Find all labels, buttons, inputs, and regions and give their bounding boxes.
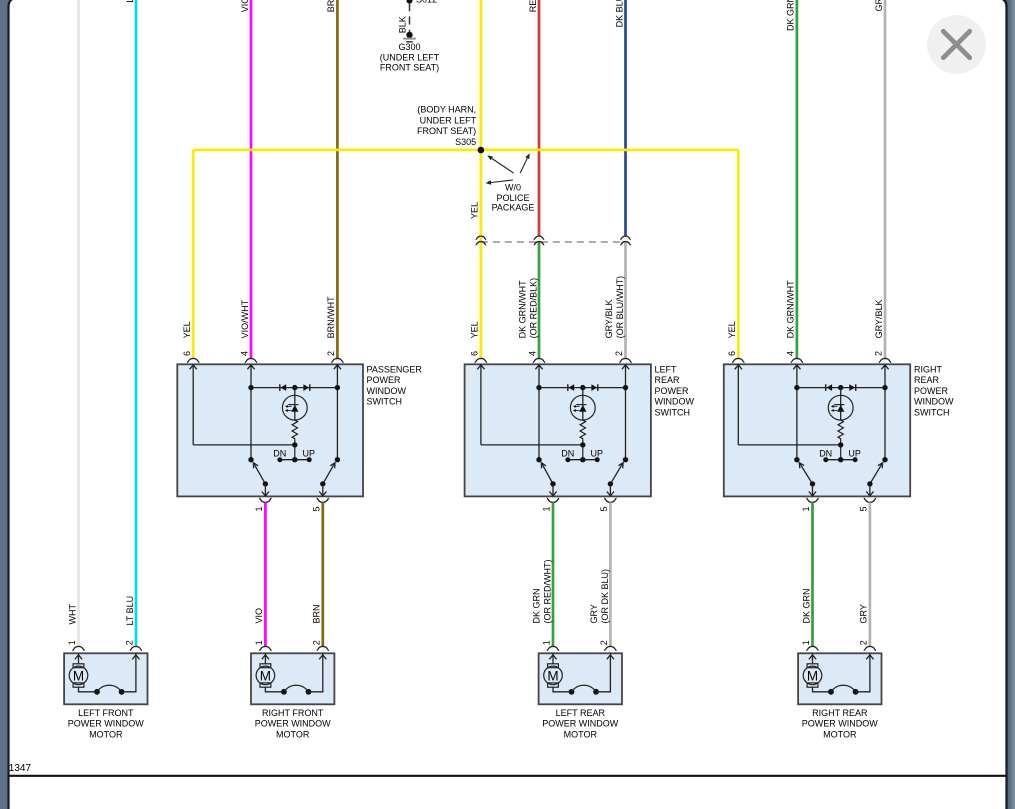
right rear power window switch: pin 4 internal lead bbox=[796, 364, 798, 459]
passenger power window switch: pin 5 internal lead bbox=[322, 484, 324, 497]
viewer close button bbox=[927, 15, 986, 74]
svg-text:VIO: VIO bbox=[254, 608, 264, 624]
right rear power window switch: pin 1 connector arc bbox=[806, 498, 818, 502]
passenger power window switch: pin 2 connector arc bbox=[331, 358, 343, 362]
viewer dark left margin bbox=[0, 0, 9, 809]
svg-text:YEL: YEL bbox=[182, 321, 192, 338]
svg-text:2: 2 bbox=[874, 351, 884, 356]
wire DK GRN (right rear switch 1 to right rear motor) bbox=[811, 502, 814, 647]
left front power window motor: block body bbox=[64, 653, 147, 704]
right rear power window motor: pin 2 connector arc bbox=[864, 646, 876, 650]
right front power window motor: jumper arc bbox=[281, 689, 287, 695]
ground G300 node bbox=[406, 32, 412, 38]
svg-text:6: 6 bbox=[470, 351, 480, 356]
left rear power window switch: DN/UP contact bar bbox=[568, 459, 597, 461]
left rear power window switch: circuit breaker circle bbox=[570, 395, 595, 420]
left front power window motor: pin 1 connector arc bbox=[72, 646, 84, 650]
wire WHT (left front motor pin 1 feed) bbox=[77, 0, 80, 647]
svg-text:5: 5 bbox=[859, 506, 869, 511]
passenger power window switch: pin 2 internal lead bbox=[336, 364, 338, 459]
passenger power window switch: diode D2 (up direction) bbox=[309, 384, 311, 391]
svg-text:6: 6 bbox=[182, 351, 192, 356]
right rear power window switch: pin 5 connector arc bbox=[864, 498, 876, 502]
left front power window motor: motor M brushes bbox=[73, 664, 84, 668]
left rear power window switch: pin 6 internal lead bbox=[480, 364, 482, 445]
svg-text:1: 1 bbox=[801, 506, 811, 511]
passenger power window switch: pin 6 internal lead bbox=[192, 364, 194, 445]
wire DK GRN/WHT (to right rear switch pin 4) bbox=[796, 0, 799, 359]
left rear power window switch: pin 1 connector arc bbox=[547, 498, 559, 502]
svg-text:2: 2 bbox=[599, 640, 609, 645]
left rear power window switch: circuit breaker arrows bbox=[576, 405, 580, 407]
wire DK GRN (left rear switch 1 to left rear motor) bbox=[552, 502, 555, 647]
svg-text:GRY/BLK: GRY/BLK bbox=[874, 300, 884, 339]
passenger power window switch: DN wiper blade bbox=[253, 463, 265, 484]
svg-text:UP: UP bbox=[303, 448, 316, 458]
right rear power window switch: circuit breaker circle bbox=[828, 395, 853, 420]
right rear power window switch: pole node pin4 side bbox=[794, 457, 799, 462]
splice S305 bbox=[478, 147, 485, 154]
svg-text:4: 4 bbox=[786, 351, 796, 356]
svg-text:(OR BLU/WHT): (OR BLU/WHT) bbox=[615, 276, 625, 339]
left front power window motor: motor M circle bbox=[69, 666, 88, 685]
svg-text:(OR DK BLU): (OR DK BLU) bbox=[600, 569, 610, 624]
svg-text:1: 1 bbox=[801, 640, 811, 645]
svg-text:1: 1 bbox=[542, 506, 552, 511]
right rear power window motor: pin 1 connector arc bbox=[806, 646, 818, 650]
svg-text:POLICE: POLICE bbox=[496, 193, 529, 203]
svg-text:BRN/WHT: BRN/WHT bbox=[326, 296, 336, 338]
svg-text:UP: UP bbox=[591, 448, 604, 458]
right front power window motor: motor M brushes bbox=[260, 664, 271, 668]
svg-text:S305: S305 bbox=[455, 137, 476, 147]
svg-text:M: M bbox=[260, 668, 271, 683]
left rear power window switch: resistor bbox=[580, 420, 585, 460]
right rear power window switch: DN wiper blade bbox=[799, 463, 812, 484]
left rear power window switch: pin 5 internal lead bbox=[609, 484, 611, 497]
svg-text:VIO/WHT: VIO/WHT bbox=[240, 299, 250, 338]
right front power window motor: pin 1 connector arc bbox=[259, 646, 271, 650]
right rear power window motor: motor bottom lead bbox=[813, 687, 832, 692]
wire GRY/BLK (lower, to left rear switch pin 2) bbox=[624, 241, 627, 359]
svg-text:BLK: BLK bbox=[397, 16, 407, 33]
left rear power window motor: pin 1 connector arc bbox=[547, 646, 559, 650]
left rear power window motor: motor bottom lead bbox=[553, 687, 572, 692]
svg-text:DN: DN bbox=[561, 448, 574, 458]
right front power window motor: pin 2 connector arc bbox=[317, 646, 329, 650]
right rear power window switch: pin 2 internal lead bbox=[884, 364, 886, 459]
left rear power window motor: jumper arc bbox=[569, 689, 575, 695]
svg-text:2: 2 bbox=[859, 640, 869, 645]
svg-text:BRN/WHT: BRN/WHT bbox=[326, 0, 336, 12]
right front power window motor: motor M circle bbox=[256, 666, 275, 685]
wire LT BLU (left front motor pin 2 feed) bbox=[135, 0, 138, 647]
svg-text:(BODY HARN,: (BODY HARN, bbox=[417, 105, 476, 115]
right rear power window switch: resistor bbox=[838, 420, 843, 460]
passenger power window switch: center lead through breaker bbox=[294, 388, 296, 421]
passenger power window switch: block body bbox=[177, 364, 363, 496]
left rear power window switch: pole node pin4 side bbox=[536, 457, 541, 462]
svg-text:GRY/BLK: GRY/BLK bbox=[604, 300, 614, 339]
left rear power window switch: pin 2 internal lead bbox=[625, 364, 627, 459]
right rear power window switch: circuit breaker arrows bbox=[834, 405, 838, 407]
right rear power window switch: pin 2 connector arc bbox=[879, 358, 891, 362]
passenger power window switch: pole node pin4 side bbox=[248, 457, 253, 462]
svg-text:GRY: GRY bbox=[589, 604, 599, 623]
passenger power window switch: pin 6 connector arc bbox=[187, 358, 199, 362]
svg-text:2: 2 bbox=[326, 351, 336, 356]
passenger power window switch: DN/UP contact bar bbox=[280, 459, 309, 461]
left rear power window motor: pin 1 internal lead bbox=[552, 653, 554, 664]
wire YEL horizontal splice run bbox=[193, 149, 738, 152]
svg-text:5: 5 bbox=[312, 506, 322, 511]
svg-text:1347: 1347 bbox=[9, 763, 32, 774]
right front power window motor: pin 1 internal lead bbox=[264, 653, 266, 664]
left rear power window switch: node at resistor foot bbox=[580, 442, 585, 447]
svg-text:2: 2 bbox=[614, 351, 624, 356]
svg-text:BRN: BRN bbox=[312, 604, 322, 623]
left rear power window motor: pin 2 connector arc bbox=[604, 646, 616, 650]
svg-text:DN: DN bbox=[273, 448, 286, 458]
wire BLK dashed to ground bbox=[409, 3, 411, 35]
right rear power window motor: pin 1 internal lead bbox=[812, 653, 814, 664]
left front power window motor: motor bottom lead bbox=[79, 687, 98, 692]
right rear power window switch: pin 6 connector arc bbox=[732, 358, 744, 362]
right rear power window switch: node at resistor foot bbox=[838, 442, 843, 447]
wire YEL drop to passenger switch pin 6 bbox=[192, 150, 195, 359]
left rear power window switch: pin 4 connector arc bbox=[533, 358, 545, 362]
svg-text:1: 1 bbox=[254, 506, 264, 511]
svg-text:FRONT SEAT): FRONT SEAT) bbox=[380, 62, 439, 72]
page bottom rule bbox=[9, 775, 1007, 777]
right rear power window switch: diode bus bbox=[797, 387, 885, 389]
right rear power window switch: pin 4 connector arc bbox=[791, 358, 803, 362]
svg-text:(UNDER LEFT: (UNDER LEFT bbox=[380, 52, 440, 62]
svg-text:DK GRN/WHT: DK GRN/WHT bbox=[786, 0, 796, 31]
svg-text:DK GRN/WHT: DK GRN/WHT bbox=[517, 280, 527, 338]
svg-text:M: M bbox=[73, 668, 84, 683]
svg-text:FRONT SEAT): FRONT SEAT) bbox=[417, 126, 476, 136]
passenger power window switch: UP wiper blade bbox=[323, 463, 335, 484]
left rear power window switch: diode D2 (up direction) bbox=[597, 384, 599, 391]
svg-text:5: 5 bbox=[599, 506, 609, 511]
passenger power window switch: circuit breaker circle bbox=[282, 395, 307, 420]
wire DK GRN/WHT (lower, to left rear switch pin 4) bbox=[538, 241, 541, 359]
svg-text:4: 4 bbox=[240, 351, 250, 356]
passenger power window switch: pin 1 connector arc bbox=[259, 498, 271, 502]
svg-text:DK GRN: DK GRN bbox=[531, 588, 541, 623]
right rear power window motor: jumper arc bbox=[828, 689, 834, 695]
right rear power window switch: DN/UP contact bar bbox=[826, 459, 855, 461]
splice S012 (cut at top) bbox=[407, 0, 413, 4]
passenger power window switch: pin 4 internal lead bbox=[250, 364, 252, 459]
left rear power window switch: block body bbox=[465, 364, 651, 496]
left front power window motor: jumper arc bbox=[94, 689, 100, 695]
left rear power window switch: center lead through breaker bbox=[582, 388, 584, 421]
note W/0 POLICE PACKAGE with arrows bbox=[492, 159, 514, 174]
svg-text:W/0: W/0 bbox=[505, 183, 521, 193]
svg-text:LT BLU: LT BLU bbox=[125, 0, 135, 3]
wire GRY (right rear switch 5 to right rear motor) bbox=[869, 502, 872, 647]
left front power window motor: pin 2 connector arc bbox=[130, 646, 142, 650]
left rear power window switch: DN wiper blade bbox=[541, 463, 553, 484]
left rear power window motor: pin 2 internal lead bbox=[596, 653, 610, 692]
wire GRY/BLK (to right rear switch pin 2) bbox=[884, 0, 887, 359]
passenger power window switch: pin 5 connector arc bbox=[317, 498, 329, 502]
wire GRY (left rear switch 5 to left rear motor) bbox=[609, 502, 612, 647]
left rear power window motor: block body bbox=[539, 653, 622, 704]
in-line connector at YEL bbox=[476, 236, 487, 239]
in-line connector at RED / DK GRN-WHT bbox=[534, 236, 545, 239]
svg-text:4: 4 bbox=[528, 351, 538, 356]
right front power window motor: pin 2 internal lead bbox=[309, 653, 323, 692]
svg-text:6: 6 bbox=[727, 351, 737, 356]
right front power window motor: motor bottom lead bbox=[265, 687, 284, 692]
svg-text:GRY/BLK: GRY/BLK bbox=[874, 0, 884, 12]
left rear power window switch: pin 2 connector arc bbox=[619, 358, 631, 362]
left rear power window switch: circuit breaker contact bar bbox=[576, 404, 586, 406]
wire BRN (to passenger switch pin 2) bbox=[336, 0, 339, 359]
left rear power window motor: motor M brushes bbox=[548, 664, 559, 668]
left rear power window switch: diode bus bbox=[539, 387, 626, 389]
right front power window motor: block body bbox=[251, 653, 334, 704]
in-line connector at DK BLU / GRY-BLK bbox=[620, 236, 631, 239]
right rear power window switch: circuit breaker contact bar bbox=[834, 404, 844, 406]
passenger power window switch: circuit breaker arrows bbox=[288, 405, 292, 407]
svg-text:DK GRN/WHT: DK GRN/WHT bbox=[786, 280, 796, 338]
right rear power window motor: motor M brushes bbox=[807, 664, 818, 668]
right rear power window motor: motor M circle bbox=[803, 666, 822, 685]
svg-text:M: M bbox=[807, 668, 818, 683]
svg-text:VIO/WHT: VIO/WHT bbox=[240, 0, 250, 12]
right rear power window switch: pin 6 internal lead bbox=[737, 364, 739, 445]
passenger power window switch: node at resistor foot bbox=[292, 442, 297, 447]
svg-text:2: 2 bbox=[125, 640, 135, 645]
left rear power window switch: pin 6 connector arc bbox=[475, 358, 487, 362]
svg-text:(OR RED/WHT): (OR RED/WHT) bbox=[542, 560, 552, 624]
passenger power window switch: pole node pin2 side bbox=[335, 457, 340, 462]
svg-text:GRY: GRY bbox=[859, 604, 869, 623]
wire DK BLU (upper) bbox=[624, 0, 627, 236]
right rear power window switch: circuit breaker element triangle bbox=[837, 405, 844, 412]
svg-text:2: 2 bbox=[312, 640, 322, 645]
svg-text:UNDER LEFT: UNDER LEFT bbox=[420, 115, 477, 125]
passenger power window switch: pin 4 connector arc bbox=[245, 358, 257, 362]
passenger power window switch: resistor bbox=[292, 420, 297, 460]
right rear power window switch: pin 1 internal lead bbox=[812, 484, 814, 497]
svg-text:M: M bbox=[547, 668, 558, 683]
svg-text:1: 1 bbox=[254, 640, 264, 645]
ground symbol bbox=[403, 38, 416, 40]
right rear power window switch: block body bbox=[724, 364, 910, 496]
svg-text:G300: G300 bbox=[398, 42, 420, 52]
right rear power window switch: pole node pin2 side bbox=[882, 457, 887, 462]
left rear power window switch: diode D1 (down direction) bbox=[567, 384, 569, 391]
wire VIO (passenger switch 1 to right front motor) bbox=[264, 502, 267, 647]
svg-text:DN: DN bbox=[819, 448, 832, 458]
passenger power window switch: diode bus bbox=[251, 387, 337, 389]
right rear power window switch: center lead through breaker bbox=[840, 388, 842, 421]
left front power window motor: pin 1 internal lead bbox=[78, 653, 80, 664]
svg-text:DK BLU: DK BLU bbox=[614, 0, 624, 27]
left rear power window switch: pole node pin2 side bbox=[623, 457, 628, 462]
svg-text:(OR RED/BLK): (OR RED/BLK) bbox=[528, 278, 538, 339]
svg-text:DK GRN: DK GRN bbox=[801, 588, 811, 623]
right rear power window motor: block body bbox=[798, 653, 881, 704]
passenger power window switch: circuit breaker element triangle bbox=[291, 405, 298, 412]
passenger power window switch: circuit breaker contact bar bbox=[288, 404, 298, 406]
harness boundary dashed line bbox=[481, 241, 626, 243]
svg-text:PACKAGE: PACKAGE bbox=[492, 202, 535, 212]
right rear power window switch: diode D1 (down direction) bbox=[825, 384, 827, 391]
svg-text:YEL: YEL bbox=[470, 321, 480, 338]
left rear power window switch: pin 5 connector arc bbox=[604, 498, 616, 502]
passenger power window switch: pin 1 internal lead bbox=[264, 484, 266, 497]
svg-text:LT BLU: LT BLU bbox=[125, 596, 135, 626]
wire YEL drop to right rear switch pin 6 bbox=[737, 150, 740, 359]
right rear power window switch: UP wiper blade bbox=[870, 463, 883, 484]
right rear power window switch: diode D2 (up direction) bbox=[855, 384, 857, 391]
right rear power window switch: pin 5 internal lead bbox=[869, 484, 871, 497]
left rear power window switch: circuit breaker element triangle bbox=[579, 405, 586, 412]
wire VIO (to passenger switch pin 4) bbox=[250, 0, 253, 359]
svg-text:UP: UP bbox=[848, 448, 861, 458]
svg-text:RED: RED bbox=[528, 0, 538, 12]
svg-text:1: 1 bbox=[542, 640, 552, 645]
left rear power window motor: motor M circle bbox=[544, 666, 563, 685]
svg-text:S012: S012 bbox=[416, 0, 437, 4]
left rear power window switch: UP wiper blade bbox=[610, 463, 623, 484]
left rear power window switch: pin 1 internal lead bbox=[552, 484, 554, 497]
svg-text:YEL: YEL bbox=[470, 202, 480, 219]
left front power window motor: pin 2 internal lead bbox=[122, 653, 136, 692]
svg-text:YEL: YEL bbox=[727, 321, 737, 338]
passenger power window switch: diode D1 (down direction) bbox=[279, 384, 281, 391]
wire YEL vertical (center feed) bbox=[480, 0, 483, 359]
wire RED (upper) bbox=[538, 0, 541, 236]
svg-text:WHT: WHT bbox=[67, 604, 77, 625]
svg-text:1: 1 bbox=[67, 640, 77, 645]
right rear power window motor: pin 2 internal lead bbox=[856, 653, 870, 692]
wire BRN (passenger switch 5 to right front motor) bbox=[321, 502, 324, 647]
left rear power window switch: pin 4 internal lead bbox=[538, 364, 540, 459]
